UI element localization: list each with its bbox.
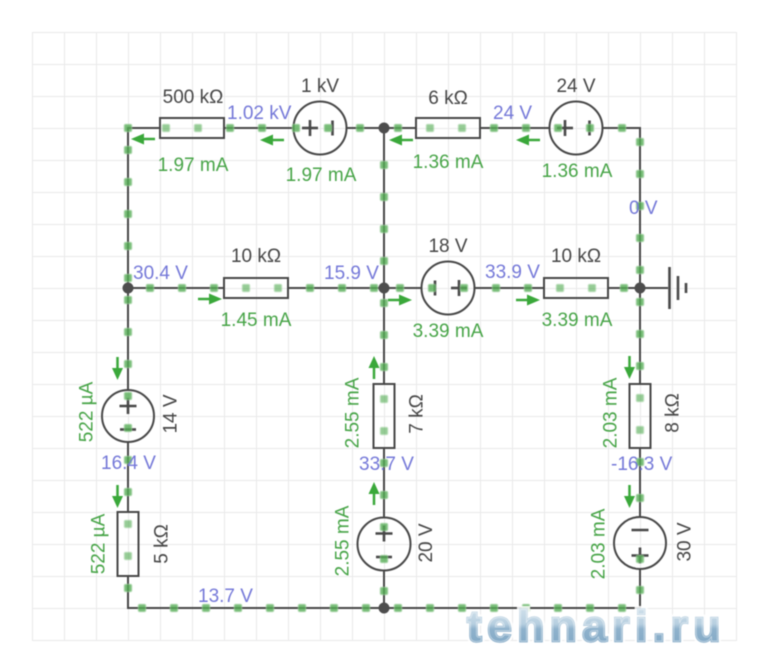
svg-text:16.4 V: 16.4 V [101,453,156,474]
resistor 6 kOhm [416,118,480,138]
resistor 7 kOhm [374,384,395,448]
current arrow right, 10k left [198,294,222,305]
current arrow left, 1kV branch [260,135,284,146]
resistor 8 kOhm [630,384,651,448]
svg-text:10 kΩ: 10 kΩ [231,246,281,267]
svg-text:522 µA: 522 µA [89,513,110,574]
svg-text:1.36 mA: 1.36 mA [413,152,484,173]
current dots left vertical upper [124,146,132,282]
svg-text:2.03 mA: 2.03 mA [601,377,622,448]
svg-text:5 kΩ: 5 kΩ [152,524,173,564]
svg-text:0 V: 0 V [629,198,658,219]
svg-text:1.36 mA: 1.36 mA [542,161,613,182]
svg-text:1.02 kV: 1.02 kV [227,103,292,124]
svg-text:14 V: 14 V [161,394,182,433]
wire center node down [383,128,385,288]
current arrow left, 24V branch [516,135,540,146]
svg-text:20 V: 20 V [416,523,437,562]
wire ground node to 8k [639,288,641,384]
wire top-right corner segment [603,128,641,288]
svg-text:1.97 mA: 1.97 mA [286,165,357,186]
current dots center vertical upper [380,161,388,265]
wire left mid node to 10k [128,287,224,289]
svg-text:2.03 mA: 2.03 mA [589,508,610,579]
current arrow up, above 20V [369,482,380,505]
voltage source 1 kV (plus left) [294,102,347,155]
node ground 0V [635,283,646,294]
watermark tehnari.ru [467,602,726,651]
svg-text:1.97 mA: 1.97 mA [158,155,229,176]
wire 500k to 1kV source [224,127,294,129]
current dots middle wire right [396,284,628,292]
current arrow right, 18V branch [388,295,412,306]
wire 6k to 24V source [480,127,550,129]
node top (384,128) [379,123,390,134]
wire 7k to 20V source [383,448,385,518]
wire 10k to center node to 18V source [288,287,422,289]
wire 10k right to ground node [608,287,640,289]
svg-text:18 V: 18 V [428,236,467,257]
svg-text:30 V: 30 V [675,522,696,561]
svg-text:2.55 mA: 2.55 mA [333,505,354,576]
voltage source 14 V (plus top) [102,390,154,442]
wire 14V source to 5k [127,442,129,512]
node left-mid 30.4V [123,283,134,294]
svg-text:33.7 V: 33.7 V [359,454,414,475]
resistor 500 kOhm [160,118,224,138]
current arrow down, above 5k [112,485,123,508]
svg-text:8 kΩ: 8 kΩ [663,393,684,433]
voltage source 24 V (plus left) [550,102,603,155]
svg-text:500 kΩ: 500 kΩ [163,87,224,108]
current arrow left, 6k branch [389,135,413,146]
current dots center vertical lower [380,299,388,595]
svg-text:1 kV: 1 kV [301,76,339,97]
voltage source 20 V (plus top) [358,518,411,571]
svg-text:30.4 V: 30.4 V [133,263,188,284]
current dots left vertical lower [124,296,132,592]
svg-text:tehnari.ru: tehnari.ru [467,602,726,651]
wire 20V source to bottom node [383,571,385,609]
voltage source 18 V (plus right) [422,262,475,315]
node center 15.9V [379,283,390,294]
svg-text:24 V: 24 V [493,103,532,124]
current arrow down, above 14V [112,357,123,380]
resistor 5 kOhm [118,512,139,576]
svg-text:522 µA: 522 µA [77,381,98,442]
svg-text:-16.3 V: -16.3 V [611,454,673,475]
current arrow down, above 8k [624,356,635,379]
current dots bottom wire [138,604,626,612]
svg-text:13.7 V: 13.7 V [198,586,253,607]
current arrow down, above 30V [624,485,635,508]
ground [640,267,686,309]
wire center node to 7k [383,288,385,384]
svg-text:24 V: 24 V [556,76,595,97]
svg-text:7 kΩ: 7 kΩ [407,394,428,434]
wire bottom-left corner segment [128,576,384,608]
wire 1kV source to top node [347,127,417,129]
voltage source 30 V (plus bottom) [614,517,666,569]
current arrow right, 10k right [516,295,540,306]
current dots middle wire left [146,284,378,292]
current arrow up, above 7k [369,356,380,379]
wire bottom-right corner segment [384,570,640,609]
svg-text:1.45 mA: 1.45 mA [221,310,292,331]
current dots right vertical upper [636,138,644,274]
wire 8k to 30V source [639,448,641,518]
resistor 10 kOhm left [224,278,288,298]
svg-text:3.39 mA: 3.39 mA [542,310,613,331]
svg-text:2.55 mA: 2.55 mA [343,377,364,448]
node bottom 13.7V [379,603,390,614]
current dots right vertical lower [636,298,644,594]
svg-text:10 kΩ: 10 kΩ [551,246,601,267]
svg-text:6 kΩ: 6 kΩ [428,88,468,109]
current dots top wire left [124,124,364,132]
resistor 10 kOhm right [544,278,608,298]
svg-text:33.9 V: 33.9 V [485,262,540,283]
current arrow left, 500k branch [131,134,155,145]
svg-text:15.9 V: 15.9 V [324,263,379,284]
svg-text:3.39 mA: 3.39 mA [413,321,484,342]
wire 18V source to 10k right [475,287,545,289]
current dots top wire right [394,124,626,132]
wire top-left corner segment [128,128,160,390]
